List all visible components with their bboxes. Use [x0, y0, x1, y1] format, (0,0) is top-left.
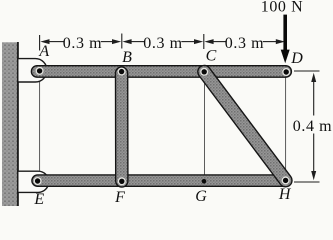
dimension D-H arrow up — [311, 73, 316, 82]
svg-text:0.3 m: 0.3 m — [63, 35, 102, 52]
node G dot — [202, 179, 207, 184]
svg-text:100 N: 100 N — [261, 0, 304, 15]
pin A — [36, 67, 44, 75]
member AD top chord — [31, 66, 291, 78]
extension tick at B — [121, 34, 123, 49]
svg-text:0.4 m: 0.4 m — [293, 118, 332, 135]
pin D — [282, 68, 290, 76]
force arrow 100 N shaft — [283, 15, 287, 51]
construction line A-E — [39, 82, 41, 171]
member BF vertical — [115, 73, 129, 181]
svg-text:0.3 m: 0.3 m — [225, 35, 264, 52]
dimension B-C arrow left — [122, 39, 131, 44]
pin C — [200, 68, 208, 76]
svg-text:G: G — [195, 188, 207, 205]
wall — [2, 42, 18, 206]
svg-text:B: B — [122, 49, 132, 66]
extension tick at C — [203, 34, 205, 49]
svg-text:C: C — [206, 48, 217, 65]
dimension D-H arrow down — [311, 171, 316, 180]
pin F — [118, 177, 126, 185]
extension line at H for 0.4 m — [294, 181, 320, 183]
svg-text:F: F — [114, 189, 125, 206]
extension tick at A — [39, 35, 41, 51]
svg-text:H: H — [278, 186, 292, 203]
pin E — [34, 177, 42, 185]
construction line C-G — [204, 77, 206, 176]
extension line at D for 0.4 m — [294, 70, 320, 72]
dimension B-C arrow right — [194, 39, 203, 44]
svg-text:D: D — [290, 50, 303, 67]
dimension C-D arrow right — [276, 39, 285, 44]
wall edge line — [17, 42, 19, 206]
bracket lug at E — [18, 171, 49, 192]
dimension A-B arrow left — [40, 39, 49, 44]
dimension C-D arrow left — [204, 39, 213, 44]
construction line D-H — [285, 77, 287, 176]
member CH diagonal — [204, 72, 285, 181]
bracket lug at A — [18, 59, 47, 82]
force arrow 100 N head — [281, 50, 290, 64]
svg-text:0.3 m: 0.3 m — [143, 35, 182, 52]
svg-text:A: A — [38, 43, 49, 60]
svg-text:E: E — [33, 191, 44, 208]
pin B — [118, 68, 126, 76]
member EH bottom chord — [32, 175, 292, 186]
pin H — [282, 176, 290, 184]
dimension A-B arrow right — [112, 39, 121, 44]
